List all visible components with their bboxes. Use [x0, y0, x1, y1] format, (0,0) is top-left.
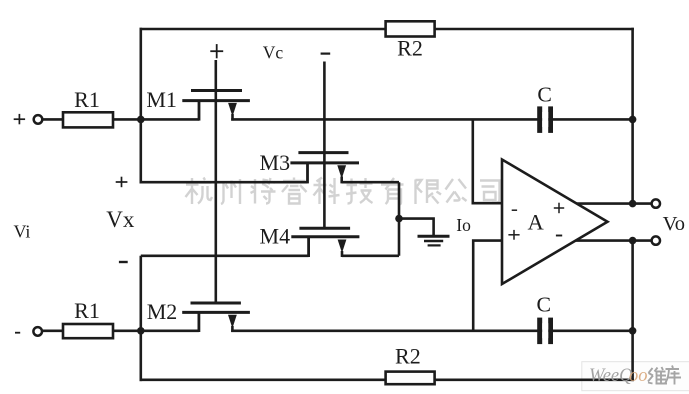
label: opamp output plus	[554, 207, 564, 209]
wire: M1 drain to C top	[231, 118, 632, 121]
transistor M2	[147, 299, 250, 332]
capacitor C (bottom)	[537, 293, 553, 345]
svg-text:M3: M3	[260, 150, 291, 175]
node: output +	[629, 200, 637, 208]
wire: drain node vertical	[398, 182, 401, 256]
svg-text:A: A	[527, 209, 544, 234]
wire: right vertical lower (output -)	[631, 241, 634, 382]
label: Vc plus	[210, 50, 223, 52]
svg-text:M4: M4	[260, 224, 291, 249]
wire: left vertical node A (top)	[140, 28, 143, 184]
公	[446, 179, 467, 203]
wire: M4 source run	[141, 255, 309, 258]
svg-text:Vi: Vi	[13, 222, 30, 242]
label: Vc minus	[321, 52, 331, 54]
node: R1 bottom / M2 source	[137, 327, 145, 335]
司	[480, 181, 500, 204]
transistor M4	[260, 224, 360, 257]
wire: bottom input row (terminal to M2 source)	[43, 329, 199, 332]
node: M3/M4 drains	[395, 215, 403, 223]
watermark WeeQoo维库	[589, 366, 681, 387]
label: plus (input)	[14, 118, 25, 120]
svg-text:R1: R1	[74, 298, 100, 323]
svg-text:Vc: Vc	[263, 42, 284, 62]
resistor R2 (top)	[386, 21, 435, 60]
terminal circles	[33, 115, 660, 336]
wire: gate line Vc-	[323, 62, 326, 230]
terminal: input +	[34, 115, 43, 124]
州	[221, 179, 240, 204]
限	[416, 180, 442, 205]
svg-text:Vx: Vx	[106, 207, 135, 232]
ground	[418, 236, 450, 245]
svg-text:C: C	[537, 293, 552, 317]
有	[381, 178, 404, 205]
wire: left vertical node B (bottom)	[140, 256, 143, 381]
svg-text:R1: R1	[74, 87, 100, 112]
将	[251, 178, 276, 204]
wire: M3 source run	[141, 181, 308, 184]
label: Vx minus	[119, 261, 128, 263]
label: opamp input plus	[508, 234, 519, 236]
transistor M3	[260, 150, 359, 183]
node: C bottom / right rail	[629, 327, 637, 335]
svg-text:M1: M1	[146, 87, 177, 112]
watermark box (WeeQoo)	[582, 362, 689, 391]
terminal: output +	[652, 199, 660, 207]
svg-text:R2: R2	[395, 344, 421, 369]
svg-text:C: C	[537, 83, 552, 107]
wire: top input row (terminal to M1 source)	[43, 118, 199, 121]
label: minus (input)	[15, 332, 20, 334]
resistor R2 (bottom)	[386, 344, 435, 385]
wire: opamp upper input drop	[473, 119, 503, 203]
terminal: output -	[652, 236, 660, 244]
wire: gate line Vc+	[215, 60, 218, 303]
svg-text:M2: M2	[147, 299, 178, 324]
wire: ground run	[399, 219, 434, 236]
svg-text:R2: R2	[397, 35, 423, 60]
transistor M1	[146, 87, 250, 121]
node dots	[137, 116, 636, 335]
node: R1 top / M1 source / R2 feedback	[137, 116, 145, 124]
resistor R1 (top)	[63, 87, 113, 127]
wire: output - lead	[575, 239, 651, 242]
科	[314, 178, 340, 205]
resistor R1 (bottom)	[63, 298, 113, 338]
wire: opamp lower input rise	[473, 241, 502, 331]
wire: bottom feedback (R2 bottom run)	[140, 378, 634, 381]
label: Vx plus	[116, 181, 128, 183]
watermark chinese text 杭州将睿科技有限公司 (vector approx)	[186, 178, 500, 205]
node: output -	[629, 237, 637, 245]
svg-text:Vo: Vo	[663, 213, 685, 235]
wire: M4 drain run	[342, 255, 399, 258]
capacitor C (top)	[537, 83, 553, 133]
wire: top feedback (R2 top run)	[140, 28, 634, 31]
svg-text:oo: oo	[629, 366, 648, 386]
wire: output + lead	[575, 202, 651, 205]
杭	[186, 178, 213, 205]
terminal: input -	[33, 327, 42, 336]
技	[346, 178, 373, 204]
wire: right vertical upper (output +)	[631, 28, 634, 204]
svg-text:Io: Io	[456, 215, 471, 235]
label: opamp output minus	[556, 235, 562, 237]
维库 vector	[648, 366, 681, 385]
wire: M3 drain run	[342, 181, 399, 184]
label: opamp input minus	[512, 209, 517, 211]
睿	[282, 178, 307, 204]
op-amp A	[502, 160, 608, 285]
svg-text:WeeQ: WeeQ	[589, 366, 633, 386]
wire: M2 drain to C bottom	[231, 329, 632, 332]
node: C top / right rail	[629, 116, 637, 124]
